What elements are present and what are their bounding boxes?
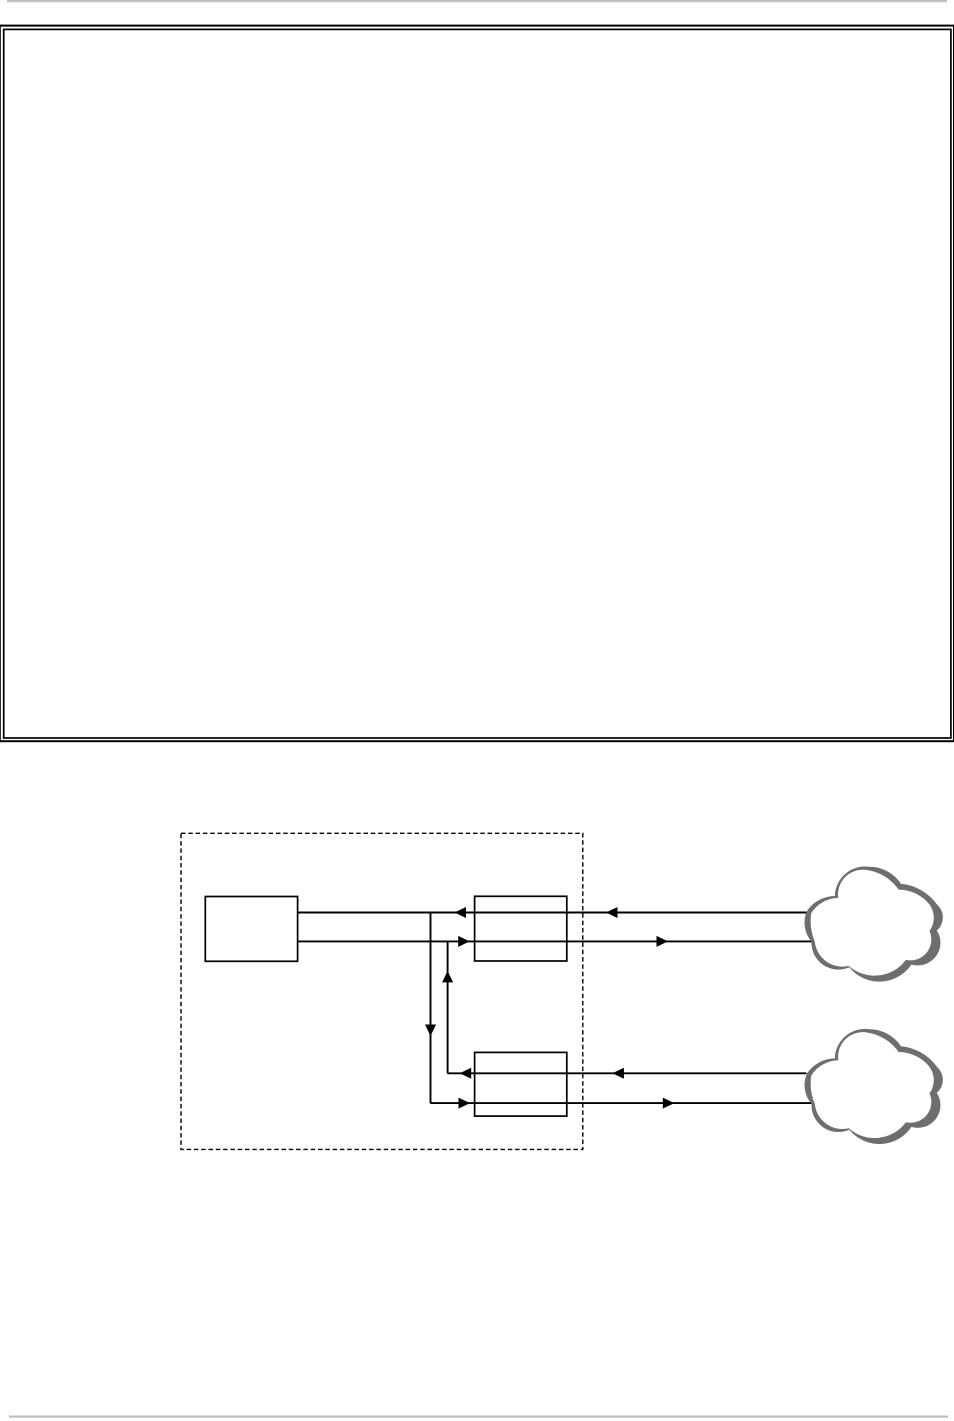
arrowhead right on line2 outer — [657, 936, 669, 947]
header rule — [7, 0, 947, 2]
wire line3 from node B to lower cloud — [447, 1072, 806, 1074]
arrowhead right on line4 inner — [459, 1098, 471, 1109]
upper cloud shadow — [805, 866, 943, 981]
arrowhead up on vertical B — [442, 971, 453, 983]
left box — [205, 897, 297, 962]
wire line1 from left box to upper cloud — [298, 912, 807, 914]
figure frame inner border — [4, 29, 951, 738]
arrowhead left on line3 inner — [460, 1068, 472, 1079]
lower cloud shadow — [805, 1029, 943, 1144]
wire line4 from node A to lower cloud — [430, 1102, 812, 1104]
arrowhead left on line3 outer — [612, 1068, 624, 1079]
upper interface box — [475, 896, 567, 961]
lower cloud body — [811, 1032, 934, 1138]
footer rule — [9, 1416, 948, 1418]
lower interface box — [475, 1052, 567, 1116]
arrowhead right on line2 inner — [458, 936, 470, 947]
upper cloud body — [811, 870, 934, 976]
wire vertical A — [430, 913, 432, 1104]
arrowhead right on line4 outer — [663, 1098, 675, 1109]
arrowhead left on line1 inner — [455, 907, 467, 918]
arrowhead left on line1 outer — [606, 907, 618, 918]
wire vertical B — [447, 941, 449, 1073]
figure frame outer border — [0, 26, 954, 742]
dashed boundary box — [181, 833, 583, 1149]
arrowhead down on vertical A — [425, 1025, 436, 1037]
wire line2 from left box to upper cloud — [298, 940, 812, 942]
